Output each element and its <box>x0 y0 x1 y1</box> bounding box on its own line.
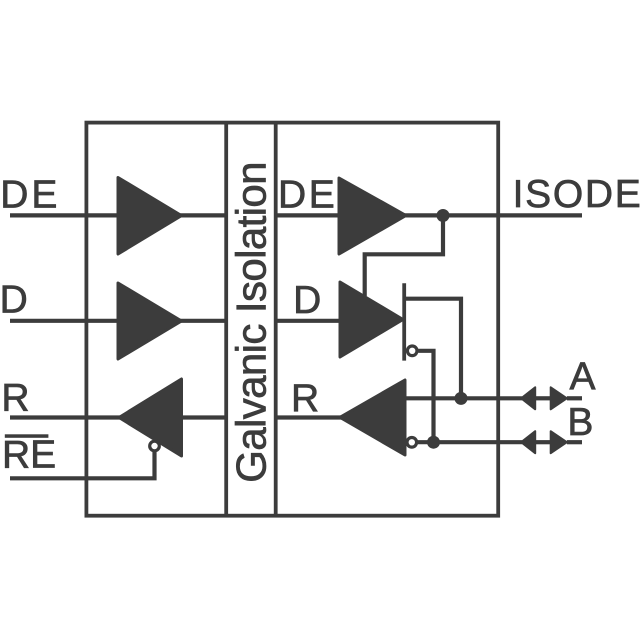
isolation barrier left line <box>224 123 228 516</box>
svg-text:ISODE: ISODE <box>513 173 640 216</box>
wire ISODE output <box>403 213 582 217</box>
arrowhead A right <box>551 387 567 409</box>
wire DE feedback elbow down-left <box>365 216 443 297</box>
svg-text:RE: RE <box>2 434 56 477</box>
svg-text:DE: DE <box>0 173 60 216</box>
wire RE input <box>10 452 155 478</box>
wire DE right from barrier <box>276 213 343 217</box>
buffer DE right <box>339 178 406 254</box>
wire R right from barrier <box>276 415 343 419</box>
junction dot A node <box>455 392 468 405</box>
wire D input <box>10 319 122 323</box>
svg-text:R: R <box>291 377 319 420</box>
svg-text:B: B <box>567 401 593 444</box>
wire R output <box>10 415 122 419</box>
junction dot B node <box>427 436 440 449</box>
svg-text:Galvanic Isolation: Galvanic Isolation <box>228 162 275 483</box>
isolation barrier right line <box>274 123 278 516</box>
enable bubble on R left buffer <box>150 441 160 451</box>
wire DE input <box>10 213 122 217</box>
wire D left output to barrier <box>179 319 226 323</box>
wire R left input from barrier <box>179 415 226 419</box>
svg-text:A: A <box>570 356 596 399</box>
buffer D left <box>118 283 182 359</box>
wire driver to A line <box>405 299 461 399</box>
wire B line <box>417 440 522 444</box>
driver output bar <box>402 283 406 360</box>
inverting bubble on driver output <box>407 346 417 356</box>
wire A line <box>405 396 522 400</box>
wire D right from barrier <box>276 319 344 323</box>
outer box U1 <box>86 123 498 516</box>
wire B between arrowheads <box>535 440 551 444</box>
receiver buffer R right <box>340 380 405 455</box>
junction dot ISODE node <box>437 209 450 222</box>
driver D right <box>340 282 403 357</box>
overline for RE <box>5 434 49 438</box>
svg-text:D: D <box>0 279 28 322</box>
buffer DE left <box>118 178 182 255</box>
wire DE left output to barrier <box>179 213 226 217</box>
wire bubble to B line <box>418 351 433 442</box>
svg-text:D: D <box>293 279 321 322</box>
svg-text:DE: DE <box>278 173 337 216</box>
wire A between arrowheads <box>535 396 551 400</box>
enable bubble on R right buffer <box>407 438 417 448</box>
svg-text:R: R <box>1 377 29 420</box>
arrowhead B left <box>521 431 535 453</box>
arrowhead A left <box>521 387 535 409</box>
wire A stub <box>567 396 582 400</box>
wire B stub <box>567 440 582 444</box>
receiver buffer R left <box>119 379 182 456</box>
arrowhead B right <box>551 431 567 453</box>
